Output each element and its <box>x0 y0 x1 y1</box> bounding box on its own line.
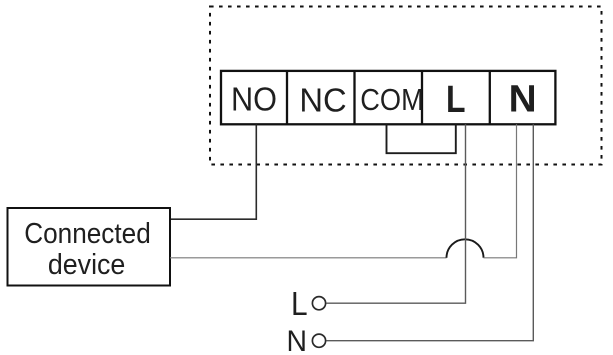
svg-text:COM: COM <box>360 82 424 117</box>
wire hop right segment up to N terminal <box>484 124 517 257</box>
N supply terminal circle <box>312 334 325 347</box>
L supply terminal circle <box>312 297 325 310</box>
terminal divider NO/NC <box>286 71 288 124</box>
connected device box <box>8 208 171 286</box>
svg-text:Connected: Connected <box>24 218 151 250</box>
svg-text:L: L <box>446 79 466 121</box>
wire N terminal to N supply <box>326 124 533 340</box>
svg-text:N: N <box>287 325 308 355</box>
wire hop over L wire <box>447 239 484 258</box>
wire NO to connected device <box>170 124 256 219</box>
svg-text:NC: NC <box>299 81 346 118</box>
jumper wire COM-L <box>387 124 456 153</box>
wire connected device to N terminal <box>170 257 447 259</box>
thermostat outline (dashed enclosure) <box>210 7 602 165</box>
terminal divider COM/L <box>421 71 423 124</box>
svg-text:NO: NO <box>231 81 277 118</box>
svg-text:device: device <box>48 249 126 281</box>
terminal divider L/N <box>489 71 491 124</box>
svg-text:L: L <box>291 285 308 322</box>
terminal strip outline <box>221 71 555 124</box>
terminal divider NC/COM <box>353 71 355 124</box>
wire L terminal to L supply <box>326 124 465 303</box>
svg-text:N: N <box>509 78 537 120</box>
